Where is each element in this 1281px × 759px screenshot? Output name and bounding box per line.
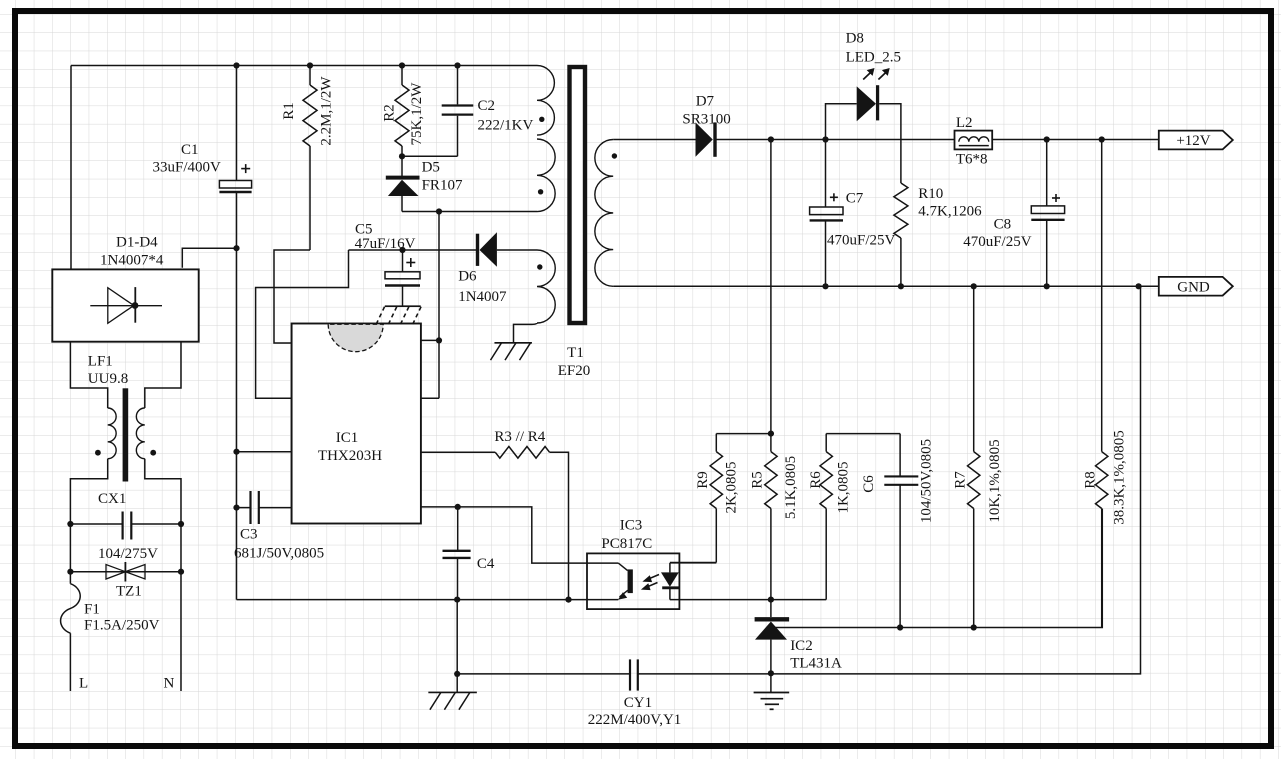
capacitor C7 (810, 140, 843, 287)
svg-text:R9: R9 (695, 471, 711, 489)
capacitor CY1 (630, 659, 638, 690)
wire drain node (402, 212, 537, 399)
transformer T1 core (570, 67, 586, 323)
label D6 (458, 269, 477, 285)
node junction R7 ref (971, 624, 977, 630)
node junction C5 top (399, 247, 405, 253)
svg-text:PC817C: PC817C (601, 536, 652, 552)
value EF20 (558, 363, 591, 379)
wire GND rail (613, 285, 1159, 287)
svg-text:R6: R6 (808, 471, 824, 489)
T1 aux winding (537, 250, 555, 323)
label R3 // R4 (494, 429, 545, 445)
svg-text:EF20: EF20 (558, 363, 591, 379)
node junction divider rail (768, 431, 774, 437)
label C6 (861, 475, 877, 493)
svg-text:LED_2.5: LED_2.5 (846, 50, 901, 66)
wire bridge to C1 node (182, 248, 236, 268)
svg-text:C3: C3 (240, 527, 258, 543)
value C7 470uF/25V (827, 233, 896, 249)
label C8 (994, 217, 1012, 233)
fuse F1 (61, 572, 81, 691)
svg-text:1N4007*4: 1N4007*4 (100, 253, 164, 269)
value R7 10K,1%,0805 (987, 439, 1003, 522)
label R8 (1083, 471, 1099, 489)
terminal L (79, 676, 88, 692)
svg-text:+12V: +12V (1176, 133, 1210, 149)
value PC817C (601, 536, 652, 552)
label C1 (181, 142, 199, 158)
svg-text:N: N (164, 676, 175, 692)
node junction C8 top (1044, 136, 1050, 142)
LED arrows (863, 68, 890, 80)
varistor TZ1 (70, 562, 181, 582)
label D1-D4 (116, 235, 158, 251)
label L2 (956, 115, 973, 131)
svg-text:CX1: CX1 (98, 491, 126, 507)
value CX1 104/275V (98, 546, 158, 562)
wire CX1 to TZ1 right (180, 524, 182, 572)
phase dot LF1 left (95, 450, 101, 456)
capacitor C3 (237, 491, 292, 524)
wire LF1 right down (145, 459, 181, 524)
wire CX1 to TZ1 left (69, 524, 71, 572)
node junction drain top (436, 208, 442, 214)
wire LF1 left down (70, 459, 107, 524)
svg-text:THX203H: THX203H (318, 448, 382, 464)
wire anode line (457, 286, 1140, 674)
plus sign C1 (241, 164, 250, 173)
wire aux winding to ground (514, 323, 538, 343)
capacitor C6 (884, 434, 918, 628)
plus sign C7 (830, 193, 838, 201)
node junction R1 top (307, 62, 313, 68)
node junction CX1 left (67, 521, 73, 527)
value R8 38.3K,1%,0805 (1112, 430, 1128, 525)
value C1 33uF/400V (153, 160, 222, 176)
svg-text:C7: C7 (846, 191, 864, 207)
resistor R10 (894, 183, 908, 286)
node junction TZ1 right (178, 569, 184, 575)
svg-text:T1: T1 (567, 345, 584, 361)
node junction R10 bottom (898, 283, 904, 289)
node junction D8 branch (822, 136, 828, 142)
wire D8 to R10 (879, 104, 901, 183)
svg-text:10K,1%,0805: 10K,1%,0805 (987, 439, 1003, 522)
label GND (1177, 280, 1210, 296)
wire rail R6-C6 (826, 433, 900, 435)
IC3 phototransistor (618, 563, 630, 600)
IC3 light arrows (641, 575, 659, 591)
optocoupler IC3 box (587, 553, 679, 609)
node junction C4 top (455, 504, 461, 510)
wire IC3 anode out (670, 562, 716, 564)
svg-text:TL431A: TL431A (790, 656, 842, 672)
svg-text:681J/50V,0805: 681J/50V,0805 (234, 546, 324, 562)
resistor R2 (395, 66, 409, 157)
value C3 681J/50V,0805 (234, 546, 324, 562)
svg-text:470uF/25V: 470uF/25V (963, 234, 1032, 250)
value R9 2K,0805 (723, 461, 739, 513)
resistor R7 (968, 286, 980, 627)
label C2 (478, 98, 496, 114)
label +12V (1176, 133, 1210, 149)
T1 primary winding lower (537, 139, 555, 212)
IC1 notch (328, 324, 383, 352)
label CY1 (624, 695, 652, 711)
node junction IC1 pin3 (233, 449, 239, 455)
value R1 2.2M,1/2W (319, 76, 335, 146)
label C5 (355, 222, 373, 238)
inductor LF1 left winding (108, 408, 116, 459)
wire IC1 pin5 to IC3 (421, 507, 618, 563)
label CX1 (98, 491, 126, 507)
IC IC1 THX203H box (292, 324, 421, 524)
capacitor C4 (443, 507, 471, 600)
value L2 T6*8 (956, 152, 988, 168)
svg-text:LF1: LF1 (88, 354, 113, 370)
wire drain to IC1 pin8 (421, 397, 439, 399)
node junction feed (768, 136, 774, 142)
wire L2 to +12V flag (992, 139, 1159, 141)
phase dot LF1 right (150, 450, 156, 456)
wire feed +12V to divider (770, 140, 772, 434)
value D6 1N4007 (458, 289, 507, 305)
value R6 1K,0805 (836, 461, 852, 513)
node junction C3 left (233, 505, 239, 511)
node junction opto cathode (768, 597, 774, 603)
node junction C6 ref (897, 624, 903, 630)
svg-text:4.7K,1206: 4.7K,1206 (918, 204, 982, 220)
wire C1 node down (236, 248, 238, 599)
value D5 FR107 (422, 178, 463, 194)
svg-text:38.3K,1%,0805: 38.3K,1%,0805 (1112, 430, 1128, 525)
diode D6 (478, 232, 538, 267)
svg-text:IC3: IC3 (620, 518, 643, 534)
svg-text:104/50V,0805: 104/50V,0805 (918, 439, 934, 523)
wire VCC rail (349, 249, 480, 251)
capacitor CX1 (70, 512, 181, 540)
svg-text:UU9.8: UU9.8 (88, 371, 128, 387)
shunt regulator IC2 TL431 (755, 600, 790, 674)
wire top rail (71, 66, 537, 270)
ground primary (428, 692, 477, 709)
wire secondary to D7 (613, 139, 695, 141)
resistor R1 (303, 66, 317, 251)
svg-text:C6: C6 (861, 475, 877, 493)
svg-text:T6*8: T6*8 (956, 152, 988, 168)
svg-text:D5: D5 (422, 160, 440, 176)
svg-text:IC1: IC1 (336, 430, 359, 446)
label C3 (240, 527, 258, 543)
svg-text:GND: GND (1177, 280, 1210, 296)
LED D8 (857, 85, 878, 121)
svg-text:TZ1: TZ1 (116, 584, 142, 600)
svg-text:L: L (79, 676, 88, 692)
capacitor C2 (442, 66, 474, 157)
svg-text:R3 // R4: R3 // R4 (494, 429, 545, 445)
svg-text:104/275V: 104/275V (98, 546, 158, 562)
capacitor C5 (385, 250, 420, 306)
svg-text:C1: C1 (181, 142, 199, 158)
label LF1 (88, 354, 113, 370)
resistor R8 (1096, 140, 1108, 628)
svg-text:D6: D6 (458, 269, 477, 285)
value C6 104/50V,0805 (918, 439, 934, 523)
wire R6 bottom (771, 599, 826, 601)
svg-text:D7: D7 (696, 94, 715, 110)
inductor LF1 right winding (136, 408, 144, 459)
svg-text:222/1KV: 222/1KV (478, 118, 534, 134)
label R6 (808, 471, 824, 489)
svg-text:L2: L2 (956, 115, 973, 131)
diode D7 (696, 122, 716, 156)
value D7 SR3100 (682, 112, 730, 128)
value C8 470uF/25V (963, 234, 1032, 250)
node junction TL431 anode (768, 670, 774, 676)
svg-text:2K,0805: 2K,0805 (723, 461, 739, 513)
svg-text:1K,0805: 1K,0805 (836, 461, 852, 513)
resistor R3//R4 (421, 447, 569, 600)
label R7 (953, 471, 969, 489)
node junction C1 top (233, 62, 239, 68)
node junction C2 top (454, 62, 460, 68)
wire IC1 pin3 (237, 451, 292, 453)
node junction C1 bottom (233, 245, 239, 251)
T1 primary winding upper (537, 66, 554, 136)
node junction R7 top (971, 283, 977, 289)
label R5 (749, 471, 765, 489)
label C7 (846, 191, 864, 207)
svg-text:1N4007: 1N4007 (458, 289, 507, 305)
resistor R6 (820, 434, 832, 600)
inductor L2 (955, 131, 993, 150)
value R5 5.1K,0805 (783, 456, 799, 519)
capacitor C8 (1031, 140, 1064, 287)
svg-text:C8: C8 (994, 217, 1012, 233)
wire R1 to IC1 pin (274, 250, 310, 343)
svg-text:F1: F1 (84, 602, 100, 618)
terminal +12V flag (1159, 131, 1233, 150)
wire +12V rail (715, 139, 955, 141)
svg-text:D1-D4: D1-D4 (116, 235, 158, 251)
phase dot T1 secondary (612, 153, 617, 158)
svg-text:F1.5A/250V: F1.5A/250V (84, 618, 160, 634)
node junction drain IC1 (436, 337, 442, 343)
node junction R3R4 bottom (565, 597, 571, 603)
wire IC3 cathode out (670, 599, 771, 601)
label D7 (696, 94, 715, 110)
wire D8 branch left (826, 104, 857, 140)
value LED_2.5 (846, 50, 901, 66)
heatsink tab hatch (376, 306, 421, 324)
value CY1 222M/400V,Y1 (588, 712, 682, 728)
value C2 222/1KV (478, 118, 534, 134)
label R10 (918, 186, 943, 202)
label D8 (846, 31, 864, 47)
svg-text:222M/400V,Y1: 222M/400V,Y1 (588, 712, 682, 728)
value THX203H (318, 448, 382, 464)
resistor R9 (710, 434, 722, 563)
label R1 (281, 102, 297, 120)
svg-text:75K,1/2W: 75K,1/2W (409, 82, 425, 146)
node junction C7 bottom (822, 283, 828, 289)
label C4 (477, 556, 495, 572)
svg-text:IC2: IC2 (790, 638, 813, 654)
inductor LF1 core (123, 388, 129, 481)
svg-text:C2: C2 (478, 98, 496, 114)
phase dot T1 primary lower (538, 189, 543, 194)
node junction TZ1 left (67, 569, 73, 575)
node junction C4 bottom (454, 597, 460, 603)
svg-text:470uF/25V: 470uF/25V (827, 233, 896, 249)
phase dot T1 aux (537, 264, 542, 269)
node junction CX1 right (178, 521, 184, 527)
label R2 (382, 104, 398, 122)
wire bridge to LF1 right (145, 342, 181, 408)
node junction GND riser (1136, 283, 1142, 289)
label IC3 (620, 518, 643, 534)
diode D5 (386, 156, 420, 211)
svg-text:SR3100: SR3100 (682, 112, 730, 128)
plus sign C5 (406, 258, 415, 267)
svg-text:R5: R5 (749, 471, 765, 489)
wire primary common rail (237, 599, 619, 601)
value 1N4007*4 (100, 253, 164, 269)
value R2 75K,1/2W (409, 82, 425, 146)
label D5 (422, 160, 440, 176)
svg-text:R2: R2 (382, 104, 398, 122)
wire C2 to D5 node (402, 155, 458, 157)
value TL431A (790, 656, 842, 672)
T1 secondary winding (595, 140, 613, 287)
wire VCC rail to IC1 (256, 250, 349, 398)
svg-text:2.2M,1/2W: 2.2M,1/2W (319, 76, 335, 146)
label R9 (695, 471, 711, 489)
svg-text:5.1K,0805: 5.1K,0805 (783, 456, 799, 519)
wire R9 to IC3 anode (670, 562, 716, 564)
label F1 (84, 602, 100, 618)
svg-text:C4: C4 (477, 556, 495, 572)
label IC2 (790, 638, 813, 654)
value LF1 UU9.8 (88, 371, 128, 387)
svg-text:CY1: CY1 (624, 695, 652, 711)
node junction CY1 left (454, 671, 460, 677)
wire N input (180, 572, 182, 691)
terminal N (164, 676, 175, 692)
label IC1 (336, 430, 359, 446)
wire C4 node to ground (456, 600, 458, 693)
label TZ1 (116, 584, 142, 600)
svg-text:FR107: FR107 (422, 178, 463, 194)
svg-text:R7: R7 (953, 471, 969, 489)
node junction R2/C2/D5 (399, 153, 405, 159)
wire divider rail R9-R5 (716, 433, 774, 435)
svg-text:47uF/16V: 47uF/16V (355, 236, 416, 252)
wire drain to IC1 pin7 (421, 339, 439, 341)
ground primary aux (491, 343, 532, 360)
IC3 photodiode (661, 563, 679, 600)
resistor R5 (765, 434, 777, 600)
terminal GND flag (1159, 277, 1233, 296)
ground IC2 earth (754, 673, 790, 709)
value F1.5A/250V (84, 618, 160, 634)
svg-text:R8: R8 (1083, 471, 1099, 489)
plus sign C8 (1052, 194, 1060, 202)
value R10 4.7K,1206 (918, 204, 982, 220)
label T1 (567, 345, 584, 361)
node junction R8 top (1099, 136, 1105, 142)
node junction C8 bottom (1044, 283, 1050, 289)
svg-text:D8: D8 (846, 31, 864, 47)
svg-text:R10: R10 (918, 186, 943, 202)
value C5 47uF/16V (355, 236, 416, 252)
svg-text:R1: R1 (281, 102, 297, 120)
capacitor C1 (219, 66, 251, 249)
node junction R2 top (399, 62, 405, 68)
wire TL431 ref line (773, 509, 1102, 628)
bridge rectifier D1-D4 (52, 269, 198, 341)
phase dot T1 primary upper (539, 117, 544, 122)
svg-text:33uF/400V: 33uF/400V (153, 160, 222, 176)
wire bridge to LF1 left (70, 342, 107, 408)
